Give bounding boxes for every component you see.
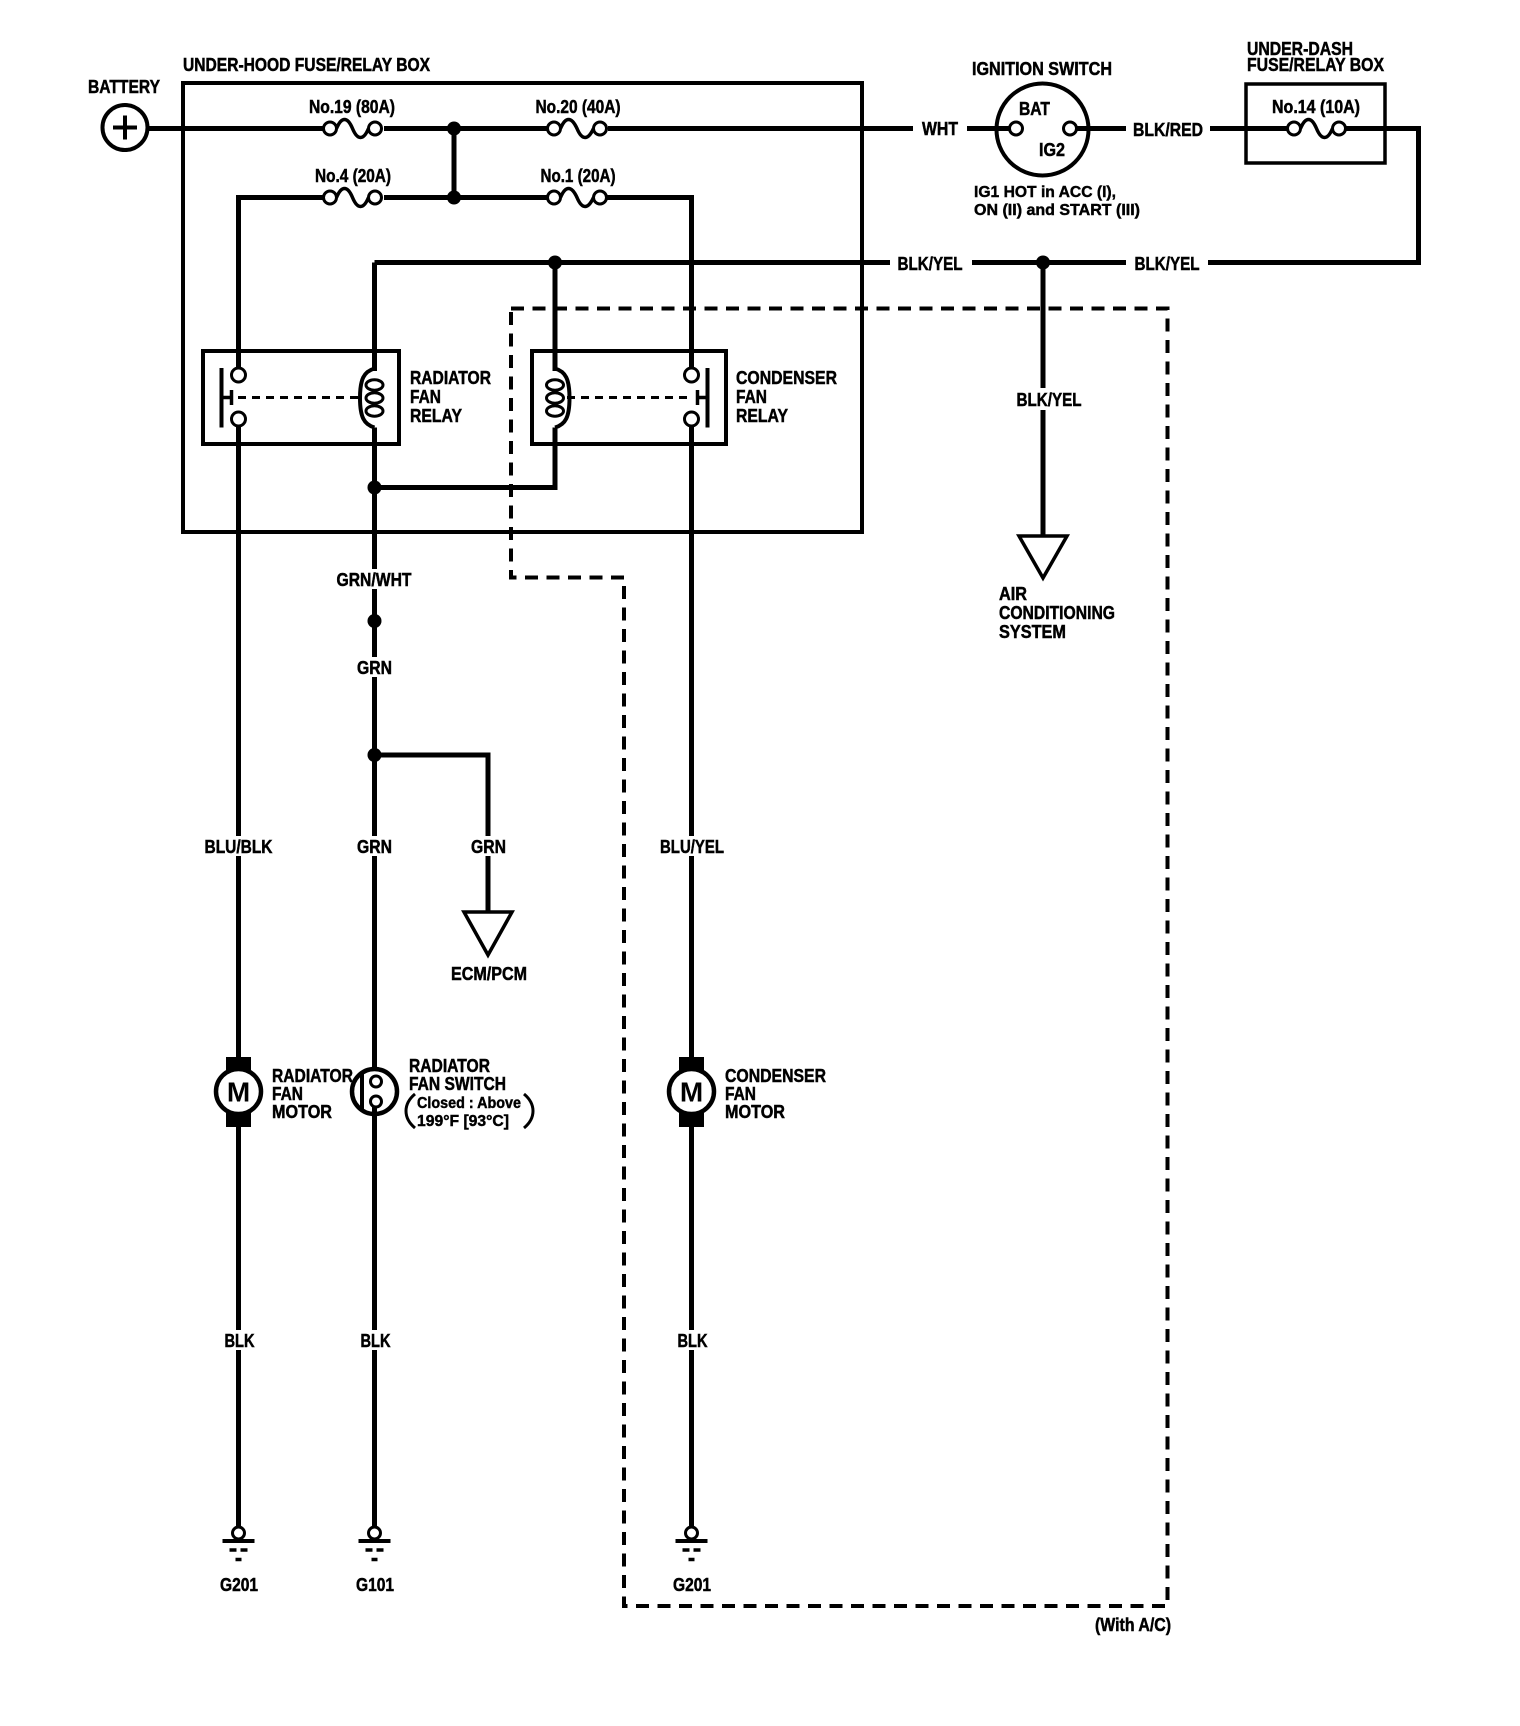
wire label BLK right [671,1330,713,1351]
wire BLK condenser fan motor to ground [689,1126,694,1528]
svg-text:FAN: FAN [736,387,767,407]
svg-text:BLK/YEL: BLK/YEL [1017,390,1082,410]
svg-text:No.14 (10A): No.14 (10A) [1272,97,1360,117]
svg-text:FAN: FAN [410,387,441,407]
svg-text:BLK: BLK [361,1331,391,1351]
svg-text:BLU/YEL: BLU/YEL [660,837,724,857]
wire coil-bottom link between relays [375,428,556,488]
svg-text:BLU/BLK: BLU/BLK [205,837,273,857]
svg-text:M: M [227,1077,250,1108]
svg-text:No.1 (20A): No.1 (20A) [541,166,616,186]
wire BLU/BLK radiator relay to radiator fan motor [236,426,241,1059]
fuse No.20 (40A) [536,97,621,145]
junction GRN branch to ECM/PCM [368,748,382,762]
wire radiator coil bottom down to junction [372,428,377,488]
junction BLK/YEL bus to A/C feed [1036,256,1050,270]
svg-text:Closed : Above: Closed : Above [417,1095,521,1112]
arrow to air conditioning system [999,536,1115,642]
svg-text:AIR: AIR [999,584,1027,604]
svg-text:No.20 (40A): No.20 (40A) [536,97,621,117]
svg-text:IG1 HOT in ACC (I),: IG1 HOT in ACC (I), [974,184,1116,201]
wire branch to ECM/PCM [375,755,489,913]
svg-text:BLK/RED: BLK/RED [1133,120,1203,140]
svg-text:MOTOR: MOTOR [272,1102,332,1122]
ground G201 left [220,1527,258,1595]
wire through under-dash box into fuse No.14 [1246,126,1290,131]
svg-text:No.19 (80A): No.19 (80A) [309,97,395,117]
wire label BLK middle [354,1330,396,1351]
svg-text:GRN/WHT: GRN/WHT [337,570,412,590]
svg-text:CONDENSER: CONDENSER [725,1066,826,1086]
svg-text:IGNITION SWITCH: IGNITION SWITCH [972,59,1112,79]
svg-text:RADIATOR: RADIATOR [409,1056,490,1076]
wire label GRN mid [352,836,397,857]
condenser fan motor [669,1057,826,1127]
radiator fan switch [352,1056,533,1130]
battery positive terminal [88,77,160,150]
wire fuse No.1 to condenser relay contact [607,198,692,371]
radiator fan relay [203,351,491,444]
junction main line to second fuse row [447,122,461,136]
wire BLU/YEL condenser relay to condenser fan motor [689,426,694,1059]
condenser fan relay [532,351,837,444]
svg-text:CONDITIONING: CONDITIONING [999,603,1115,623]
wire label BLK/YEL right [1126,252,1208,274]
svg-text:SYSTEM: SYSTEM [999,622,1066,642]
svg-text:MOTOR: MOTOR [725,1102,785,1122]
junction coil bottom / GRN-WHT [368,481,382,495]
svg-text:BLK/YEL: BLK/YEL [898,254,963,274]
svg-text:BLK: BLK [225,1331,255,1351]
arrow to ECM/PCM [451,912,527,984]
svg-text:G201: G201 [220,1575,258,1595]
svg-text:IG2: IG2 [1039,140,1065,160]
fuse No.4 (20A) [315,166,391,214]
wire second fuse row with corner down to radiator relay contact [239,198,549,371]
wire ignition IG2 to under-dash box [1077,126,1247,131]
svg-text:BLK/YEL: BLK/YEL [1135,254,1200,274]
wire GRN/WHT down from relay to fan switch [372,488,377,1078]
under-hood fuse/relay box [183,55,862,532]
svg-text:FUSE/RELAY BOX: FUSE/RELAY BOX [1247,55,1384,75]
svg-text:WHT: WHT [922,119,958,139]
svg-text:G201: G201 [673,1575,711,1595]
junction BLK/YEL bus to condenser relay coil [548,256,562,270]
svg-text:BATTERY: BATTERY [88,77,160,97]
svg-text:FAN: FAN [272,1084,303,1104]
svg-text:RADIATOR: RADIATOR [272,1066,353,1086]
wire label GRN upper [352,657,397,678]
svg-text:GRN: GRN [357,837,392,857]
wire battery to ignition switch (row y=128.5) [147,126,1010,131]
under-dash fuse/relay box [1246,39,1385,163]
wire label BLK/YEL left [890,252,972,274]
wire label WHT [913,118,967,140]
svg-text:(With A/C): (With A/C) [1095,1615,1171,1635]
wire fuse No.14 out of box, corner down to BLK/YEL bus [375,129,1419,263]
wire BLK radiator fan motor to ground [236,1126,241,1528]
svg-text:ECM/PCM: ECM/PCM [451,964,527,984]
ignition switch [972,59,1112,176]
svg-text:199°F [93°C]: 199°F [93°C] [417,1113,509,1130]
svg-text:GRN: GRN [357,658,392,678]
wire label GRN branch [466,836,511,857]
ground G201 right [673,1527,711,1595]
ignition switch note [974,184,1140,219]
svg-text:BLK: BLK [678,1331,708,1351]
wire label BLK/RED [1126,118,1210,140]
svg-text:RELAY: RELAY [410,406,462,426]
svg-text:FAN: FAN [725,1084,756,1104]
wire label GRN/WHT [334,569,415,590]
fuse No.1 (20A) [541,166,616,214]
wire label BLU/BLK [200,836,277,857]
wire label BLK left [218,1330,260,1351]
wire junction down to condenser relay coil [553,263,558,372]
svg-text:No.4 (20A): No.4 (20A) [315,166,391,186]
svg-text:CONDENSER: CONDENSER [736,368,837,388]
wire BLK/YEL down to air conditioning system [1041,263,1046,538]
ground G101 [356,1527,394,1595]
wire BLK radiator fan switch to ground [372,1107,377,1528]
junction on GRN wire [368,614,382,628]
svg-text:GRN: GRN [471,837,506,857]
junction on second fuse row [447,191,461,205]
wire label BLU/YEL [654,836,731,857]
fuse No.19 (80A) [309,97,395,145]
svg-text:BAT: BAT [1019,99,1050,119]
dashed with-A/C enclosure [511,309,1168,1607]
wire BLK/YEL bus corner down to radiator relay coil [372,263,377,372]
svg-text:FAN SWITCH: FAN SWITCH [409,1074,506,1094]
svg-text:RELAY: RELAY [736,406,788,426]
wire label BLK/YEL vertical [1008,388,1090,410]
fuse No.14 (10A) [1272,97,1360,138]
svg-text:G101: G101 [356,1575,394,1595]
svg-text:RADIATOR: RADIATOR [410,368,491,388]
radiator fan motor [216,1057,353,1127]
wire vertical to second fuse row [452,129,457,198]
svg-text:UNDER-HOOD FUSE/RELAY BOX: UNDER-HOOD FUSE/RELAY BOX [183,55,430,75]
svg-text:ON (II) and START (III): ON (II) and START (III) [974,202,1140,219]
svg-text:M: M [680,1077,703,1108]
